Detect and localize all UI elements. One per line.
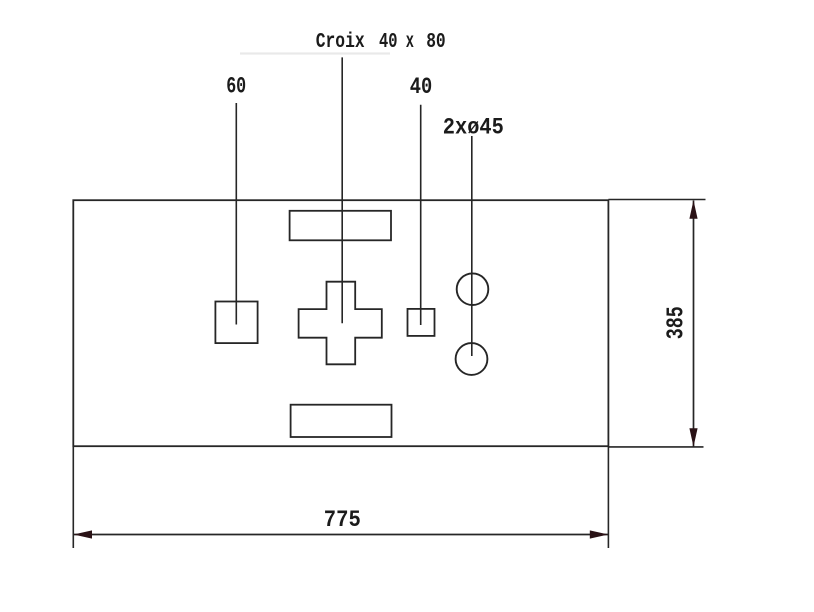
svg-text:60: 60 (226, 74, 246, 101)
dimension line 385 (693, 201, 695, 447)
arrowhead bottom of 385 (689, 428, 697, 447)
svg-text:80: 80 (426, 31, 446, 54)
svg-text:2xø45: 2xø45 (443, 115, 504, 142)
svg-text:x: x (406, 31, 414, 54)
svg-text:385: 385 (664, 306, 691, 339)
leader line from 40 label to small square (420, 105, 422, 325)
svg-text:775: 775 (324, 507, 361, 534)
bottom slot (291, 405, 392, 437)
faint erased smudge above labels (240, 52, 390, 54)
label Croix 40 x 80 (316, 31, 446, 54)
square hole 60 (215, 302, 257, 344)
svg-text:Croix: Croix (316, 31, 365, 54)
leader line from Croix label to cross center (341, 57, 343, 323)
leader line from 60 label to square (235, 103, 237, 325)
svg-text:40: 40 (410, 74, 433, 101)
square hole 40 (408, 309, 435, 336)
arrowhead top of 385 (689, 200, 697, 219)
dimension line 775 (74, 534, 608, 536)
extension line bottom left (72, 446, 74, 548)
top slot (290, 211, 391, 241)
extension line top right (608, 199, 705, 201)
arrowhead left of 775 (74, 530, 93, 538)
plate outline (73, 200, 608, 446)
extension line bottom right horizontal (608, 446, 703, 448)
cross cutout (Croix 40 x 80) (299, 282, 382, 365)
arrowhead right of 775 (590, 530, 609, 538)
circle hole top (ø45) (457, 273, 489, 305)
svg-text:40: 40 (379, 31, 398, 54)
leader line from 2x045 label through circles (471, 136, 473, 356)
extension line bottom right (607, 446, 609, 548)
circle hole bottom (ø45) (456, 343, 488, 375)
